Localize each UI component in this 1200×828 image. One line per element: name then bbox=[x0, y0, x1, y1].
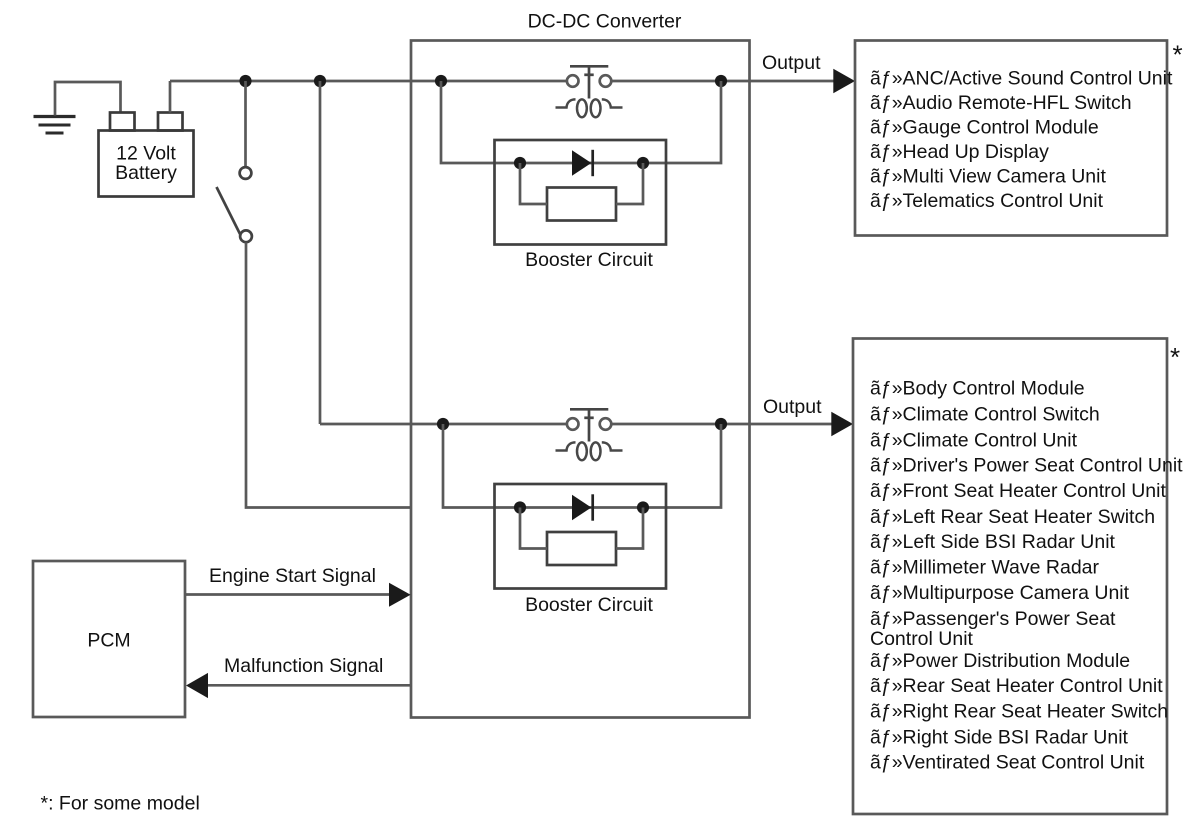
svg-text:ãƒ»Driver's Power Seat Control: ãƒ»Driver's Power Seat Control Unit bbox=[870, 455, 1183, 477]
svg-text:Output: Output bbox=[762, 52, 821, 74]
svg-text:Output: Output bbox=[763, 396, 822, 418]
booster circuit 2 box bbox=[495, 484, 667, 589]
svg-text:*: * bbox=[1172, 40, 1182, 70]
svg-text:Booster Circuit: Booster Circuit bbox=[525, 249, 653, 271]
relay K1 armature bbox=[570, 66, 608, 98]
svg-text:ãƒ»Multipurpose Camera Unit: ãƒ»Multipurpose Camera Unit bbox=[870, 582, 1130, 604]
wire output 2 bus right segment bbox=[612, 423, 834, 426]
svg-text:ãƒ»Power Distribution Module: ãƒ»Power Distribution Module bbox=[870, 650, 1130, 672]
svg-text:ãƒ»Climate Control Switch: ãƒ»Climate Control Switch bbox=[870, 404, 1100, 426]
wire switch lower lead to converter bbox=[246, 243, 411, 508]
svg-text:*: For some model: *: For some model bbox=[41, 793, 200, 815]
arrowhead malfunction signal bbox=[186, 673, 208, 698]
relay K2 armature bbox=[570, 409, 608, 441]
switch S1 upper contact bbox=[240, 167, 252, 179]
resistor R1 bbox=[547, 188, 616, 221]
switch S1 lower contact bbox=[240, 230, 252, 242]
PCM module box bbox=[33, 561, 185, 717]
wire resistor R2 left link bbox=[520, 508, 547, 549]
node junction output2 bus at booster 2 left bbox=[437, 418, 449, 430]
svg-text:ãƒ»ANC/Active Sound Control Un: ãƒ»ANC/Active Sound Control Unit bbox=[870, 68, 1173, 90]
node booster 2 diode anode bbox=[514, 501, 526, 513]
svg-text:Engine Start Signal: Engine Start Signal bbox=[209, 565, 376, 587]
booster circuit 1 box bbox=[495, 140, 667, 245]
svg-text:ãƒ»Audio Remote-HFL Switch: ãƒ»Audio Remote-HFL Switch bbox=[870, 92, 1132, 114]
wire booster 1 left feed bbox=[441, 81, 643, 163]
wire resistor R1 right link bbox=[616, 163, 643, 204]
svg-text:ãƒ»Body Control Module: ãƒ»Body Control Module bbox=[870, 378, 1085, 400]
wire second feed drop bbox=[319, 81, 322, 424]
svg-text:ãƒ»Multi View Camera Unit: ãƒ»Multi View Camera Unit bbox=[870, 166, 1106, 188]
svg-text:ãƒ»Front Seat Heater Control U: ãƒ»Front Seat Heater Control Unit bbox=[870, 480, 1166, 502]
relay K2 contact circles bbox=[567, 418, 611, 430]
relay K1 contact circles bbox=[567, 75, 611, 87]
svg-text:ãƒ»Right Rear Seat Heater Swit: ãƒ»Right Rear Seat Heater Switch bbox=[870, 701, 1168, 723]
node list box 2 loads bbox=[870, 378, 1183, 774]
node junction top bus at switch bbox=[239, 75, 251, 87]
wire booster 2 right return bbox=[643, 424, 721, 508]
svg-text:Malfunction Signal: Malfunction Signal bbox=[224, 655, 383, 677]
svg-text:ãƒ»Climate Control Unit: ãƒ»Climate Control Unit bbox=[870, 430, 1078, 452]
svg-text:ãƒ»Telematics Control Unit: ãƒ»Telematics Control Unit bbox=[870, 190, 1104, 212]
svg-text:ãƒ»Rear Seat Heater Control Un: ãƒ»Rear Seat Heater Control Unit bbox=[870, 675, 1163, 697]
svg-text:Battery: Battery bbox=[115, 162, 177, 184]
svg-text:*: * bbox=[1170, 342, 1180, 372]
svg-text:PCM: PCM bbox=[87, 630, 130, 652]
wire booster 2 left feed bbox=[443, 424, 643, 508]
wire resistor R2 right link bbox=[616, 508, 643, 549]
svg-text:ãƒ»Millimeter Wave Radar: ãƒ»Millimeter Wave Radar bbox=[870, 557, 1100, 579]
relay K2 coil bbox=[556, 442, 623, 460]
svg-text:Booster Circuit: Booster Circuit bbox=[525, 594, 653, 616]
wire top bus left segment bbox=[170, 80, 567, 83]
svg-text:ãƒ»Head Up Display: ãƒ»Head Up Display bbox=[870, 141, 1049, 163]
svg-text:Control Unit: Control Unit bbox=[870, 628, 974, 650]
wire booster 1 right return bbox=[643, 81, 721, 163]
svg-text:DC-DC Converter: DC-DC Converter bbox=[528, 11, 682, 33]
DC-DC converter enclosure bbox=[411, 41, 750, 718]
node booster 1 diode anode bbox=[514, 157, 526, 169]
node list box 1 loads bbox=[870, 68, 1173, 213]
wire resistor R1 left link bbox=[520, 163, 547, 204]
load list box 2 bbox=[853, 339, 1167, 815]
node booster 2 diode cathode bbox=[637, 501, 649, 513]
wire ground to battery positive bbox=[55, 82, 121, 116]
diode D2 bbox=[572, 494, 593, 520]
wire battery to top bus bbox=[169, 81, 172, 113]
arrowhead output 1 bbox=[833, 69, 855, 93]
svg-text:ãƒ»Right Side BSI Radar Unit: ãƒ»Right Side BSI Radar Unit bbox=[870, 727, 1129, 749]
switch S1 lever bbox=[217, 187, 241, 234]
svg-text:ãƒ»Left Side BSI Radar Unit: ãƒ»Left Side BSI Radar Unit bbox=[870, 531, 1116, 553]
node junction top bus at booster 1 right bbox=[715, 75, 727, 87]
node booster 1 diode cathode bbox=[637, 157, 649, 169]
diode D1 bbox=[572, 150, 593, 176]
node junction output2 bus at booster 2 right bbox=[715, 418, 727, 430]
wire engine start signal bbox=[185, 593, 390, 596]
load list box 1 bbox=[855, 41, 1167, 236]
wire output 2 bus left segment bbox=[320, 423, 567, 426]
relay K1 coil bbox=[556, 99, 623, 117]
node junction top bus at booster 1 left bbox=[435, 75, 447, 87]
wire top bus right segment to output 1 bbox=[612, 80, 836, 83]
wire switch upper lead bbox=[244, 81, 247, 167]
wire malfunction signal bbox=[208, 684, 412, 687]
arrowhead engine start signal bbox=[389, 583, 411, 607]
svg-text:ãƒ»Left Rear Seat Heater Switc: ãƒ»Left Rear Seat Heater Switch bbox=[870, 506, 1155, 528]
arrowhead output 2 bbox=[831, 412, 853, 436]
battery B1 12 Volt bbox=[99, 113, 194, 197]
svg-text:ãƒ»Passenger's Power Seat: ãƒ»Passenger's Power Seat bbox=[870, 608, 1116, 630]
svg-text:ãƒ»Ventirated Seat Control Uni: ãƒ»Ventirated Seat Control Unit bbox=[870, 752, 1145, 774]
node junction top bus at second converter feed bbox=[314, 75, 326, 87]
svg-text:ãƒ»Gauge Control Module: ãƒ»Gauge Control Module bbox=[870, 117, 1099, 139]
ground bbox=[34, 117, 76, 134]
resistor R2 bbox=[547, 532, 616, 565]
